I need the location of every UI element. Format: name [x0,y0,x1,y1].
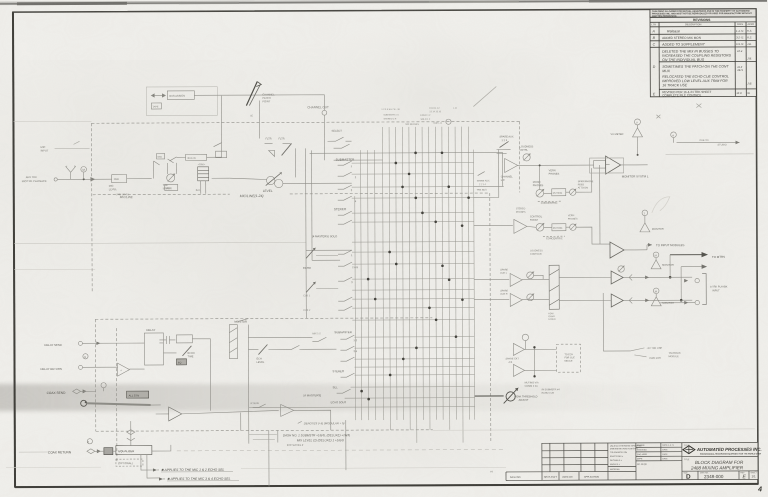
wire riser channel patch [220,96,222,157]
thick gray wire [87,403,151,405]
speaker triangle monitor 2 [651,260,661,269]
filter section FLTR [266,137,285,140]
wire amp U1 out [518,164,610,167]
wire: long faint fold line across sheet [13,120,91,122]
wire: coax return continuation dashed [177,449,506,450]
channel patch point pencil mark [246,82,257,106]
leader to monitor label [237,319,248,322]
stereo echo switches S7 [312,337,326,341]
bus vertical wires group 1 [382,127,469,420]
pencil smudge [652,197,670,213]
wire to input modules [647,244,652,246]
wire: bus bottom stubs [390,420,463,443]
wires connecting level pot [230,178,267,180]
API logo [683,445,762,455]
echo level pot P12 [258,345,267,355]
meter amp triangle up [632,128,642,137]
scanner shadow band [0,384,692,411]
label: channel patch point [262,92,275,103]
node circle above [101,383,106,388]
wire riser [539,165,541,189]
solo switch bank S3 [312,234,359,284]
junction input [83,178,85,180]
relay K3 series box [594,161,606,169]
bus assign box B1 [167,91,194,100]
wire second arrow [681,266,703,268]
diamond riser above equalizer [127,430,135,441]
muting relay K2 [552,224,566,231]
peak threshold pot P10 [506,392,515,401]
op-amp U2 monitor L (large) [606,156,621,174]
pot P8 [527,272,534,279]
tolerance column [607,443,609,480]
op-amp U7b output B [611,294,623,307]
application row [506,471,542,473]
number row [682,470,758,472]
speaker triangle monitor 1 [640,223,650,232]
wires into cue box [524,340,556,370]
wire: faint coax return stub to frame [19,451,48,453]
note: applies lines with arrows [161,468,231,481]
all stations box (dark) [127,391,149,398]
stereo switch bank S2 [334,207,352,224]
submaster switch bank S1 [336,158,357,204]
cue 1 pot P14 [306,282,315,292]
box line amp [186,154,207,160]
wire riser long [599,165,601,244]
wire to mtrs [670,254,703,256]
pot P7 [570,224,576,230]
wire: channel feed across bus [310,151,503,154]
connector J1 [198,167,209,181]
label cue [303,294,321,335]
wire coax send [81,388,104,392]
wires from connector down [200,181,202,194]
trk 1-24 box [165,184,178,190]
scan top edge bar [0,0,767,5]
node M delay circle [83,354,88,359]
row 2: op-amp U3 [514,219,527,233]
op-amp U8 [513,343,524,355]
row texts (handwritten) [652,29,753,98]
feeder wires from switches to bus with junction dots [248,163,475,408]
talkback labels with leader lines [630,348,646,357]
pot P6 control room [530,215,543,221]
wire: second feed [334,159,383,161]
wire pots row [544,168,592,193]
pad box [112,175,127,183]
node VU meter M1 [634,119,640,125]
mono phones pot P4 [520,145,560,187]
row lines [650,33,756,35]
echo level pot P13 [306,248,315,258]
optional dashed box [116,459,143,466]
dashed cue module box [556,344,580,372]
label spare aux top [500,135,514,142]
title [684,445,744,471]
wire cue out [677,141,740,143]
mic line small texts [116,189,201,196]
output terminals [695,278,699,282]
node: input terminal [54,178,57,181]
wires delay section [159,339,210,411]
wires into fader [522,275,549,299]
echo time pot P11 [182,346,191,356]
switch S6 [285,345,304,349]
wires row2 [527,226,610,244]
junction dots [359,151,470,400]
wire channel out down [323,115,325,138]
trk switch Q area [157,153,165,159]
node dark circle [81,400,87,406]
op-amp U1 channel L [505,158,518,172]
op-amp U7 output A [611,271,623,284]
signoff grid left [542,450,608,452]
node A circle top right [671,132,677,138]
coax return connector [87,439,92,444]
pot P3 [523,154,530,161]
wire vertical junction [533,347,535,376]
equalizer box [116,446,152,455]
wires around U10 [109,367,145,369]
wire monitor vertical [247,325,250,444]
wires coax return [95,445,171,451]
node M input circle [81,166,87,172]
wire verticals right of bus [498,149,500,197]
company block [681,443,683,480]
wire U2 out [621,164,648,166]
box sel [216,151,227,158]
wire pad to switch [127,178,152,180]
wire long to frame [666,153,754,155]
wire U4 out [624,249,647,251]
leader wires to notes [141,455,153,471]
box above echo time [176,335,192,343]
op-amp U4 monitor R (large) [610,242,624,258]
label spare aux right of bus [477,180,490,192]
wire row [248,336,312,338]
label channel L-R [501,175,514,181]
row 3: spare aux amps [500,268,508,274]
shield outline box [590,158,624,173]
box TAPE below B1 [151,103,161,109]
label mic input [22,145,49,183]
EQ box [176,359,186,365]
drawn/checked column [636,446,682,448]
level dual pot P2 [266,176,274,184]
lower submaster switch bank S5 [330,330,357,404]
Y marks on outputs [629,274,632,303]
echo switch bank S4 [316,255,352,310]
title block [506,442,762,481]
bracket 8trk [702,274,706,305]
vertical riser to select [295,148,297,177]
capacitor C1 [159,336,175,344]
mic input transformer T1 [66,166,76,179]
op-amp U9 [514,364,525,376]
op-amp U10 [117,363,129,376]
faint enclosure around bus assign [146,87,217,116]
op-amp U11 [169,407,182,421]
wire from B1 to channel out net [194,95,324,111]
wire risers to trk switch row [153,161,155,178]
REVISIONS header [650,16,756,18]
wires fader to amps and outputs [559,277,692,301]
muting relay K1 [552,189,566,196]
wire: faint fold line lower [14,268,95,270]
wire patch point drop [258,101,260,139]
revisions table [650,9,756,98]
wires echo level row [248,348,336,350]
note: dash no block [283,433,350,442]
pot P5 [570,189,576,195]
wire: faint scan line right of dashed box [433,429,755,430]
bidirectional arrow into B1 [151,94,165,97]
fader block F1 [549,265,559,309]
notice note box [650,9,756,17]
node: bus sense circle [446,119,451,124]
dashed enclosure mic/line [91,121,520,444]
wire meter chain [636,125,638,128]
trk level pot P1 [167,174,175,182]
pad box dark [104,448,113,455]
column header row [650,25,756,27]
node circle E [522,334,528,340]
monitor circle M3 + triangle [653,288,659,294]
muting note [525,381,561,395]
op-amp U5 [510,273,522,286]
node M monitor circle [653,252,659,258]
labels speaker atten [578,180,594,189]
bus vertical wires group 2 (left) [355,150,475,421]
wire vertical center-bottom [268,431,270,487]
left edge connector circles [85,401,87,403]
node T circle [642,210,648,216]
bus top labels [381,108,457,126]
op-amp U6 [510,293,522,306]
dashed monitor enclosure [95,318,433,461]
pot P9 [618,266,624,272]
wire: main input line [58,178,112,180]
wires from U11 [151,404,279,431]
pencil diagonal top right of bus [473,87,496,107]
pencil check marks below rev table [656,104,701,119]
wire: bus exits right [474,185,504,187]
wire U7 down to talkback [603,293,630,351]
op-amp U12 [281,404,294,416]
